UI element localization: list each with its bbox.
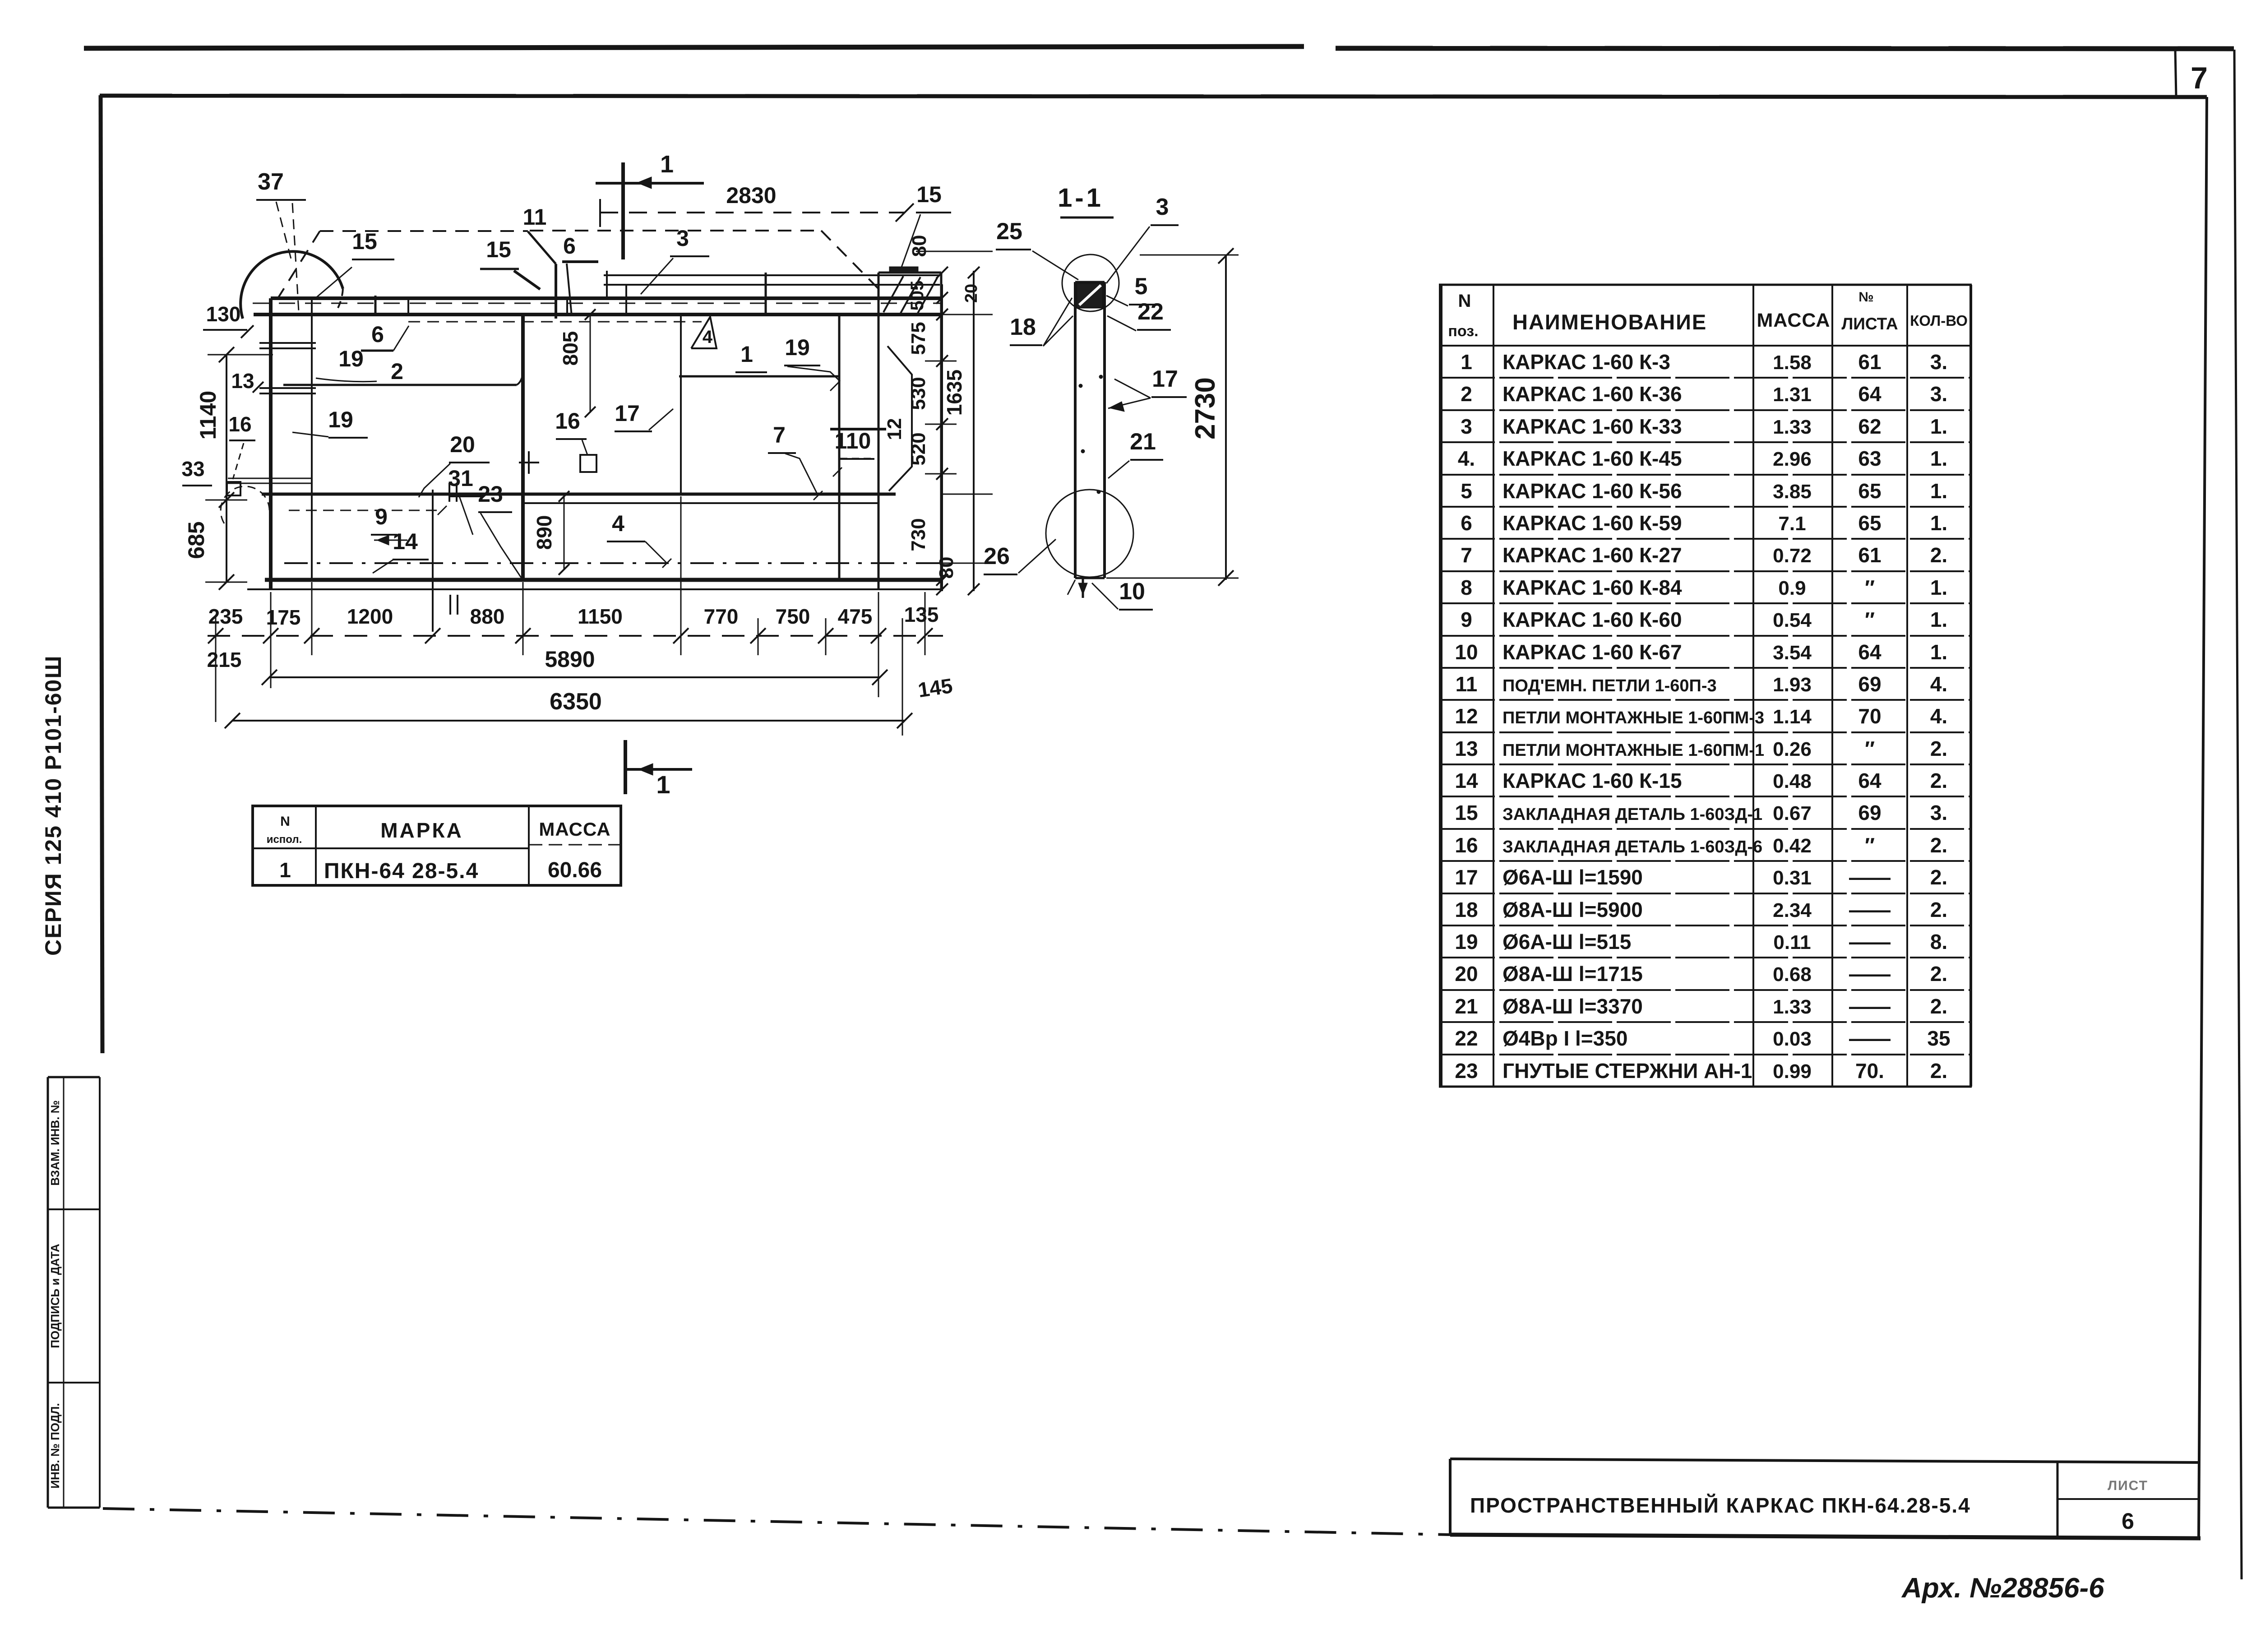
svg-text:ЛИСТА: ЛИСТА xyxy=(1841,315,1898,333)
svg-text:КАРКАС 1-60 К-59: КАРКАС 1-60 К-59 xyxy=(1502,511,1682,535)
svg-text:19: 19 xyxy=(785,335,810,360)
svg-text:КАРКАС 1-60 К-27: КАРКАС 1-60 К-27 xyxy=(1502,543,1682,567)
svg-text:15: 15 xyxy=(486,237,511,262)
svg-text:2.96: 2.96 xyxy=(1773,448,1812,470)
svg-text:25: 25 xyxy=(996,218,1022,245)
svg-text:19: 19 xyxy=(328,407,353,432)
svg-text:6: 6 xyxy=(2122,1509,2134,1534)
svg-text:3.85: 3.85 xyxy=(1773,481,1812,503)
svg-text:17: 17 xyxy=(1152,366,1178,392)
svg-text:1.14: 1.14 xyxy=(1773,706,1812,728)
svg-text:1200: 1200 xyxy=(347,605,393,628)
svg-text:ПОД'ЕМН. ПЕТЛИ 1-60П-3: ПОД'ЕМН. ПЕТЛИ 1-60П-3 xyxy=(1502,676,1717,695)
svg-text:поз.: поз. xyxy=(1448,323,1478,340)
svg-text:69: 69 xyxy=(1858,801,1881,824)
svg-text:1.: 1. xyxy=(1930,415,1947,438)
svg-text:64: 64 xyxy=(1858,640,1882,664)
svg-text:1: 1 xyxy=(1461,350,1472,374)
svg-text:——: —— xyxy=(1849,898,1891,921)
svg-text:0.48: 0.48 xyxy=(1773,770,1812,792)
svg-text:16: 16 xyxy=(228,412,251,436)
svg-text:——: —— xyxy=(1849,865,1891,889)
svg-text:20: 20 xyxy=(450,432,475,457)
svg-text:2.: 2. xyxy=(1930,995,1947,1018)
svg-text:КАРКАС 1-60 К-3: КАРКАС 1-60 К-3 xyxy=(1502,350,1670,374)
svg-text:КАРКАС 1-60 К-45: КАРКАС 1-60 К-45 xyxy=(1502,447,1682,470)
svg-text:КАРКАС 1-60 К-56: КАРКАС 1-60 К-56 xyxy=(1502,479,1682,503)
svg-text:475: 475 xyxy=(838,605,873,628)
svg-text:Ø8А-Ш l=1715: Ø8А-Ш l=1715 xyxy=(1502,962,1643,986)
svg-text:1.31: 1.31 xyxy=(1773,384,1812,406)
svg-text:110: 110 xyxy=(835,428,871,453)
svg-text:730: 730 xyxy=(907,518,929,551)
svg-text:1.58: 1.58 xyxy=(1773,352,1812,374)
svg-text:11: 11 xyxy=(523,204,547,230)
svg-text:750: 750 xyxy=(776,605,810,628)
svg-text:235: 235 xyxy=(208,605,243,628)
svg-text:″: ″ xyxy=(1865,833,1875,857)
svg-text:2: 2 xyxy=(1461,382,1472,406)
svg-text:21: 21 xyxy=(1455,995,1478,1018)
svg-text:18: 18 xyxy=(1455,898,1478,921)
svg-text:7.1: 7.1 xyxy=(1778,513,1806,535)
svg-text:4.: 4. xyxy=(1930,704,1947,728)
svg-text:37: 37 xyxy=(258,169,284,195)
svg-text:19: 19 xyxy=(338,346,364,371)
svg-text:31: 31 xyxy=(448,466,473,491)
svg-text:КАРКАС 1-60 К-15: КАРКАС 1-60 К-15 xyxy=(1502,769,1682,792)
svg-text:ГНУТЫЕ СТЕРЖНИ АН-1: ГНУТЫЕ СТЕРЖНИ АН-1 xyxy=(1502,1059,1752,1083)
svg-text:″: ″ xyxy=(1865,576,1875,599)
svg-text:6: 6 xyxy=(1461,511,1472,535)
svg-text:15: 15 xyxy=(916,182,942,207)
svg-text:1-1: 1-1 xyxy=(1058,183,1104,213)
svg-text:0.99: 0.99 xyxy=(1773,1060,1812,1083)
svg-text:ЛИСТ: ЛИСТ xyxy=(2108,1478,2148,1493)
svg-text:505: 505 xyxy=(907,281,927,311)
svg-text:——: —— xyxy=(1849,930,1891,953)
svg-text:770: 770 xyxy=(704,605,739,628)
svg-text:ПЕТЛИ МОНТАЖНЫЕ 1-60ПМ-1: ПЕТЛИ МОНТАЖНЫЕ 1-60ПМ-1 xyxy=(1502,741,1764,760)
svg-text:145: 145 xyxy=(916,674,954,702)
svg-text:испол.: испол. xyxy=(267,833,302,846)
svg-text:135: 135 xyxy=(904,603,939,626)
svg-text:1: 1 xyxy=(656,770,670,799)
svg-text:14: 14 xyxy=(1455,769,1478,792)
svg-text:ПРОСТРАНСТВЕННЫЙ КАРКАС ПКН-64: ПРОСТРАНСТВЕННЫЙ КАРКАС ПКН-64.28-5.4 xyxy=(1470,1494,1971,1517)
svg-text:1: 1 xyxy=(279,858,291,882)
svg-text:6: 6 xyxy=(563,233,576,259)
svg-text:130: 130 xyxy=(206,302,241,326)
svg-text:60.66: 60.66 xyxy=(548,858,602,882)
svg-text:13: 13 xyxy=(231,369,254,393)
svg-text:2.: 2. xyxy=(1930,769,1947,792)
svg-text:530: 530 xyxy=(907,377,929,410)
svg-text:11: 11 xyxy=(1456,672,1478,696)
svg-text:N: N xyxy=(1458,291,1471,311)
svg-text:9: 9 xyxy=(1461,608,1472,631)
svg-text:НАИМЕНОВАНИЕ: НАИМЕНОВАНИЕ xyxy=(1512,310,1707,334)
svg-text:0.31: 0.31 xyxy=(1773,867,1812,889)
svg-text:——: —— xyxy=(1849,962,1891,986)
svg-text:ВЗАМ. ИНВ. №: ВЗАМ. ИНВ. № xyxy=(48,1100,62,1185)
svg-text:2.: 2. xyxy=(1930,737,1947,760)
svg-text:6350: 6350 xyxy=(550,689,602,715)
svg-text:10: 10 xyxy=(1455,640,1478,664)
svg-text:6: 6 xyxy=(371,322,384,347)
svg-text:2: 2 xyxy=(391,359,403,384)
svg-text:65: 65 xyxy=(1858,479,1881,503)
svg-text:3.: 3. xyxy=(1930,350,1947,374)
svg-text:10: 10 xyxy=(1119,578,1145,605)
svg-text:62: 62 xyxy=(1858,415,1881,438)
svg-text:23: 23 xyxy=(478,481,503,507)
svg-text:575: 575 xyxy=(907,322,929,355)
svg-text:35: 35 xyxy=(1927,1027,1950,1050)
svg-text:880: 880 xyxy=(470,605,505,628)
svg-text:63: 63 xyxy=(1858,447,1881,470)
svg-text:1635: 1635 xyxy=(943,370,966,416)
svg-text:3.: 3. xyxy=(1930,801,1947,824)
svg-text:2730: 2730 xyxy=(1190,377,1221,440)
svg-text:КАРКАС 1-60 К-33: КАРКАС 1-60 К-33 xyxy=(1502,415,1682,438)
svg-text:ПЕТЛИ МОНТАЖНЫЕ 1-60ПМ-3: ПЕТЛИ МОНТАЖНЫЕ 1-60ПМ-3 xyxy=(1502,708,1764,727)
svg-text:Ø6А-Ш l=1590: Ø6А-Ш l=1590 xyxy=(1502,865,1643,889)
svg-text:0.26: 0.26 xyxy=(1773,738,1812,760)
svg-text:N: N xyxy=(280,814,290,829)
svg-text:2.34: 2.34 xyxy=(1773,899,1812,921)
svg-text:805: 805 xyxy=(559,331,582,366)
svg-text:″: ″ xyxy=(1865,608,1875,631)
svg-text:3.54: 3.54 xyxy=(1773,642,1812,664)
svg-text:20: 20 xyxy=(1455,962,1478,986)
svg-text:3: 3 xyxy=(1156,194,1169,220)
svg-text:Арх. №28856-6: Арх. №28856-6 xyxy=(1901,1573,2104,1604)
svg-text:ЗАКЛАДНАЯ ДЕТАЛЬ 1-60ЗД-6: ЗАКЛАДНАЯ ДЕТАЛЬ 1-60ЗД-6 xyxy=(1502,838,1762,856)
svg-text:1.33: 1.33 xyxy=(1773,996,1812,1018)
svg-text:16: 16 xyxy=(555,408,580,434)
svg-text:80: 80 xyxy=(935,557,957,579)
svg-text:22: 22 xyxy=(1137,299,1164,325)
svg-text:70: 70 xyxy=(1858,704,1881,728)
svg-text:КОЛ-ВО: КОЛ-ВО xyxy=(1910,312,1968,329)
svg-text:Ø4Вр I l=350: Ø4Вр I l=350 xyxy=(1502,1027,1627,1050)
svg-text:МАССА: МАССА xyxy=(539,819,610,840)
svg-text:——: —— xyxy=(1849,995,1891,1018)
svg-text:2.: 2. xyxy=(1930,865,1947,889)
svg-text:1.33: 1.33 xyxy=(1773,416,1812,438)
svg-text:65: 65 xyxy=(1858,511,1881,535)
svg-text:175: 175 xyxy=(266,606,301,629)
svg-text:1.: 1. xyxy=(1930,608,1947,631)
svg-text:КАРКАС 1-60 К-36: КАРКАС 1-60 К-36 xyxy=(1502,382,1682,406)
svg-text:14: 14 xyxy=(393,529,418,554)
svg-text:3: 3 xyxy=(1461,415,1472,438)
svg-text:Ø6А-Ш l=515: Ø6А-Ш l=515 xyxy=(1502,930,1631,953)
svg-text:12: 12 xyxy=(883,418,906,440)
svg-text:0.11: 0.11 xyxy=(1773,931,1811,953)
svg-text:3: 3 xyxy=(676,226,689,251)
svg-text:1.93: 1.93 xyxy=(1773,674,1812,696)
svg-text:КАРКАС 1-60 К-84: КАРКАС 1-60 К-84 xyxy=(1502,576,1682,599)
svg-text:2.: 2. xyxy=(1930,898,1947,921)
svg-text:7: 7 xyxy=(1461,543,1472,567)
svg-text:26: 26 xyxy=(984,543,1010,569)
svg-text:20: 20 xyxy=(962,284,981,303)
svg-text:64: 64 xyxy=(1858,769,1882,792)
svg-text:ЗАКЛАДНАЯ ДЕТАЛЬ 1-60ЗД-1: ЗАКЛАДНАЯ ДЕТАЛЬ 1-60ЗД-1 xyxy=(1502,805,1762,824)
svg-text:2830: 2830 xyxy=(726,183,776,208)
svg-text:0.68: 0.68 xyxy=(1773,963,1812,986)
svg-text:70.: 70. xyxy=(1855,1059,1884,1083)
svg-text:0.72: 0.72 xyxy=(1773,545,1812,567)
svg-text:4: 4 xyxy=(703,327,713,347)
svg-text:1.: 1. xyxy=(1930,511,1947,535)
svg-text:12: 12 xyxy=(1455,704,1478,728)
svg-text:19: 19 xyxy=(1455,930,1478,953)
svg-text:18: 18 xyxy=(1010,314,1036,340)
svg-text:МАРКА: МАРКА xyxy=(380,819,463,842)
svg-text:2.: 2. xyxy=(1930,1059,1947,1083)
svg-text:4.: 4. xyxy=(1930,672,1947,696)
svg-text:7: 7 xyxy=(2191,61,2208,95)
svg-text:1: 1 xyxy=(740,342,753,367)
svg-text:2.: 2. xyxy=(1930,543,1947,567)
svg-text:21: 21 xyxy=(1130,429,1156,455)
svg-text:15: 15 xyxy=(352,229,377,254)
svg-text:685: 685 xyxy=(184,521,209,559)
svg-text:1: 1 xyxy=(660,151,674,178)
svg-text:15: 15 xyxy=(1455,801,1478,824)
svg-text:3.: 3. xyxy=(1930,382,1947,406)
svg-text:ИНВ. № ПОДЛ.: ИНВ. № ПОДЛ. xyxy=(48,1403,62,1488)
svg-text:2.: 2. xyxy=(1930,962,1947,986)
svg-text:4: 4 xyxy=(612,511,624,536)
svg-text:5: 5 xyxy=(1135,273,1148,300)
svg-text:0.42: 0.42 xyxy=(1773,835,1812,857)
svg-text:22: 22 xyxy=(1455,1027,1478,1050)
svg-text:890: 890 xyxy=(532,515,556,550)
svg-text:64: 64 xyxy=(1858,382,1882,406)
svg-text:ПОДПИСЬ и ДАТА: ПОДПИСЬ и ДАТА xyxy=(48,1244,62,1348)
svg-text:8: 8 xyxy=(1461,576,1472,599)
svg-text:КАРКАС 1-60 К-67: КАРКАС 1-60 К-67 xyxy=(1502,640,1682,664)
svg-text:0.9: 0.9 xyxy=(1778,577,1806,599)
svg-text:61: 61 xyxy=(1858,543,1881,567)
svg-text:№: № xyxy=(1858,290,1873,305)
svg-text:7: 7 xyxy=(773,422,786,448)
svg-text:1140: 1140 xyxy=(195,391,221,440)
svg-text:215: 215 xyxy=(207,648,242,671)
svg-text:17: 17 xyxy=(1455,865,1478,889)
svg-text:″: ″ xyxy=(1865,737,1875,760)
svg-text:СЕРИЯ 125 410 Р101-60Ш: СЕРИЯ 125 410 Р101-60Ш xyxy=(41,655,66,956)
svg-text:8.: 8. xyxy=(1930,930,1947,953)
svg-text:4.: 4. xyxy=(1458,447,1475,470)
svg-text:16: 16 xyxy=(1455,833,1478,857)
svg-text:1.: 1. xyxy=(1930,576,1947,599)
svg-text:МАССА: МАССА xyxy=(1757,310,1831,331)
svg-text:17: 17 xyxy=(615,401,640,426)
svg-text:КАРКАС 1-60 К-60: КАРКАС 1-60 К-60 xyxy=(1502,608,1682,631)
svg-text:1.: 1. xyxy=(1930,447,1947,470)
svg-text:23: 23 xyxy=(1455,1059,1478,1083)
svg-text:9: 9 xyxy=(375,504,388,529)
svg-text:0.67: 0.67 xyxy=(1773,802,1812,824)
svg-text:1.: 1. xyxy=(1930,479,1947,503)
svg-text:ПКН-64 28-5.4: ПКН-64 28-5.4 xyxy=(324,859,479,883)
svg-text:61: 61 xyxy=(1858,350,1881,374)
svg-text:1.: 1. xyxy=(1930,640,1947,664)
svg-text:0.03: 0.03 xyxy=(1773,1028,1812,1050)
svg-text:33: 33 xyxy=(181,457,204,481)
svg-text:5890: 5890 xyxy=(545,647,595,672)
svg-text:0.54: 0.54 xyxy=(1773,609,1812,631)
svg-text:5: 5 xyxy=(1461,479,1472,503)
svg-text:13: 13 xyxy=(1455,737,1478,760)
svg-text:Ø8А-Ш l=3370: Ø8А-Ш l=3370 xyxy=(1502,995,1643,1018)
svg-text:1150: 1150 xyxy=(578,605,623,628)
svg-text:——: —— xyxy=(1849,1027,1891,1050)
svg-text:69: 69 xyxy=(1858,672,1881,696)
svg-text:2.: 2. xyxy=(1930,833,1947,857)
svg-text:520: 520 xyxy=(907,432,929,465)
svg-text:Ø8А-Ш l=5900: Ø8А-Ш l=5900 xyxy=(1502,898,1643,921)
